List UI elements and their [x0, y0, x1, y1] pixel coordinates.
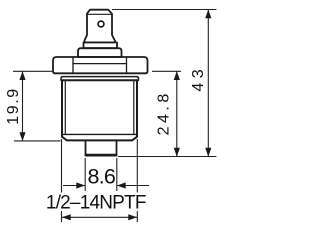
width dim extension left — [61, 139, 63, 222]
insulator collar 1 — [84, 42, 118, 48]
terminal top face line — [88, 13, 112, 15]
arrow width-dim left — [62, 214, 71, 220]
width dim line — [62, 216, 137, 218]
arrow 24.8 up — [174, 71, 180, 80]
svg-text:43: 43 — [190, 65, 207, 92]
arrow 43 down — [205, 148, 211, 157]
svg-text:1/2–14NPTF: 1/2–14NPTF — [46, 192, 146, 213]
insulator collar 2 — [78, 48, 122, 57]
dim 8.6 line left tail — [63, 185, 85, 187]
dim 8.6 line right tail — [117, 185, 149, 187]
dim 8.6 extension right — [116, 158, 118, 191]
svg-text:8.6: 8.6 — [88, 165, 116, 189]
body top lip — [61, 77, 139, 81]
svg-text:19.9: 19.9 — [5, 87, 22, 125]
dim 19.9 extension top — [13, 70, 53, 72]
body facet line right — [133, 81, 135, 134]
arrow 24.8 down — [174, 148, 180, 157]
terminal hole — [98, 21, 104, 27]
stub bottom thick edge — [86, 154, 116, 156]
arrow 19.9 up — [19, 71, 25, 80]
dim 24.8 extension top — [152, 70, 181, 72]
main body — [62, 80, 137, 140]
hex chamfer line — [73, 63, 127, 65]
dim 43 line — [207, 10, 209, 157]
dim 19.9 extension bottom — [14, 140, 61, 142]
dim 24.8 line — [176, 71, 178, 156]
arrow 43 up — [205, 10, 211, 19]
threaded stub 1/2-14NPTF — [86, 140, 117, 155]
spade terminal blade — [84, 10, 115, 43]
hex nut — [53, 57, 148, 73]
arrow 8.6 left-pointing — [117, 182, 126, 188]
hex facet line right — [126, 58, 128, 74]
arrow 8.6 right-pointing — [76, 182, 85, 188]
dim 43/24.8 extension bottom — [118, 156, 216, 158]
arrow 19.9 down — [19, 132, 25, 141]
width dim extension right — [136, 139, 138, 222]
dim 8.6 extension left — [84, 158, 86, 191]
dimension graphics — [13, 10, 216, 223]
svg-text:24.8: 24.8 — [156, 90, 173, 135]
body bottom cap line — [62, 133, 137, 135]
body facet line left — [64, 81, 66, 134]
dim 19.9 line — [22, 71, 24, 141]
dim 43 extension top — [112, 9, 216, 11]
arrow width-dim right — [128, 214, 137, 220]
hex facet line left — [72, 58, 74, 74]
